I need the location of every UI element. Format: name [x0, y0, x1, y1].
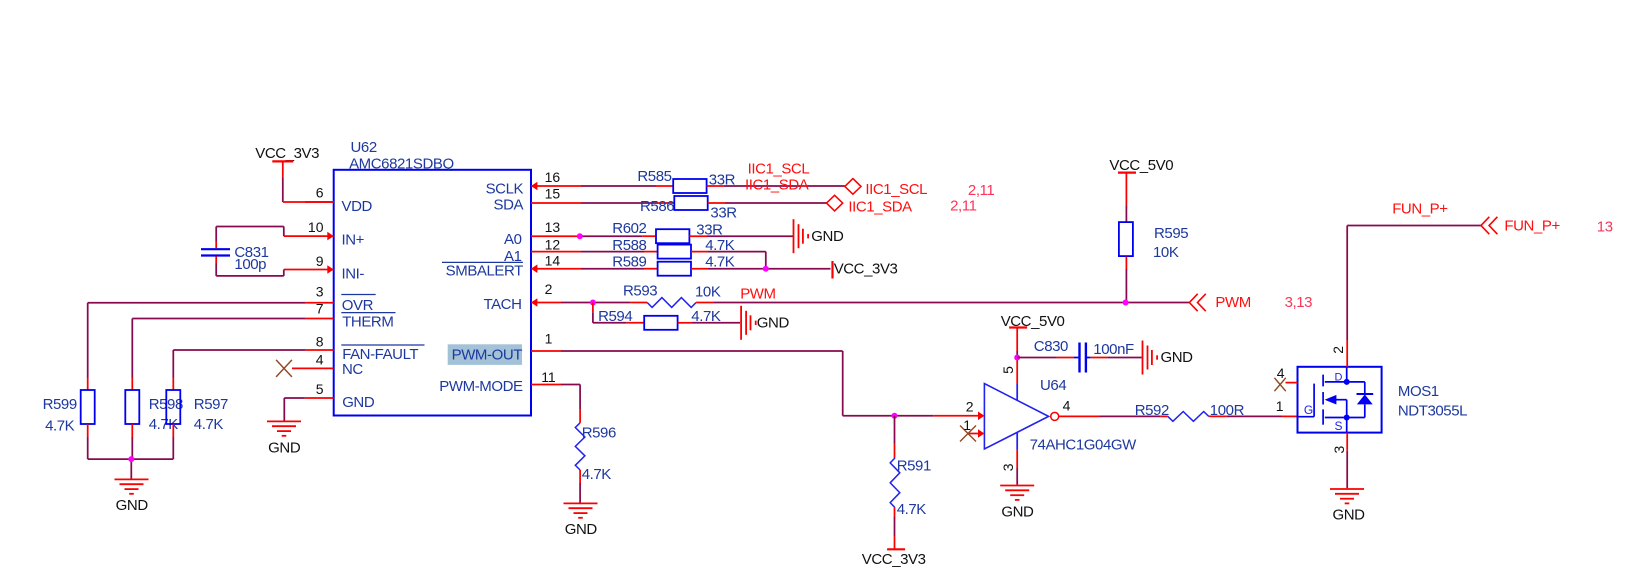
- junction node at resistor commons: [128, 456, 134, 462]
- svg-text:GND: GND: [565, 521, 598, 538]
- svg-text:1: 1: [963, 417, 971, 433]
- resistor R586 33R: [640, 196, 737, 221]
- svg-text:OVR: OVR: [342, 297, 374, 314]
- wire OVR net: [88, 303, 306, 378]
- svg-text:FUN_P+: FUN_P+: [1392, 201, 1448, 218]
- pin 2 drain of MOS1: [1330, 340, 1347, 367]
- junction node on SMBALERT net: [763, 266, 769, 272]
- wire FAN-FAULT net: [173, 350, 305, 378]
- svg-text:1: 1: [1276, 398, 1284, 414]
- wire VCC_5V0 to R595: [1125, 206, 1127, 222]
- svg-text:AMC6821SDBQ: AMC6821SDBQ: [349, 155, 454, 172]
- svg-text:GND: GND: [1161, 349, 1194, 366]
- off-page connector FUN_P+: [1481, 217, 1560, 235]
- wire IN+ net (C831 top): [216, 227, 284, 242]
- svg-text:R593: R593: [623, 283, 657, 300]
- svg-text:74AHC1G04GW: 74AHC1G04GW: [1030, 437, 1138, 454]
- wire SDA net to connector: [708, 202, 827, 204]
- svg-text:10K: 10K: [1153, 244, 1179, 261]
- resistor R594 4.7K: [598, 308, 721, 330]
- svg-text:3: 3: [316, 283, 324, 299]
- resistor R589 4.7K: [612, 254, 734, 276]
- svg-text:R599: R599: [43, 396, 77, 413]
- wire A1 net to R588: [581, 251, 658, 253]
- power symbol VCC_5V0 above R595: [1109, 157, 1173, 206]
- svg-text:R597: R597: [194, 396, 228, 413]
- svg-text:VCC_3V3: VCC_3V3: [834, 261, 898, 278]
- svg-text:R595: R595: [1154, 225, 1188, 242]
- svg-text:SMBALERT: SMBALERT: [446, 263, 523, 280]
- svg-text:4.7K: 4.7K: [194, 416, 224, 433]
- junction node on PWM net: [1123, 300, 1129, 306]
- svg-text:2,11: 2,11: [968, 182, 994, 199]
- svg-text:4: 4: [1277, 365, 1285, 381]
- svg-text:R588: R588: [612, 237, 646, 254]
- wire R591 to VCC_3V3: [894, 517, 896, 549]
- svg-text:1: 1: [545, 331, 553, 347]
- svg-text:15: 15: [545, 186, 561, 202]
- pin 3 ground pin of U64: [1000, 449, 1017, 485]
- ground symbol below R598: [115, 479, 149, 514]
- svg-text:4.7K: 4.7K: [897, 501, 927, 518]
- wire FUN_P+ net: [1347, 226, 1481, 341]
- svg-text:PWM: PWM: [740, 286, 775, 303]
- svg-text:R594: R594: [598, 308, 632, 325]
- off-page connector IIC1_SDA: [827, 195, 913, 215]
- svg-text:VCC_3V3: VCC_3V3: [862, 551, 926, 568]
- svg-text:G: G: [1304, 403, 1313, 417]
- svg-text:U62: U62: [351, 139, 377, 156]
- svg-text:12: 12: [545, 237, 561, 253]
- svg-text:2: 2: [545, 281, 553, 297]
- svg-text:10: 10: [308, 219, 324, 235]
- resistor R598 4.7K: [125, 378, 183, 438]
- svg-text:8: 8: [316, 333, 324, 349]
- svg-text:13: 13: [1597, 219, 1613, 236]
- svg-text:R591: R591: [897, 457, 931, 474]
- wire U64 output to R592: [1100, 415, 1168, 417]
- svg-text:D: D: [1335, 372, 1343, 384]
- resistor R593 10K: [623, 283, 721, 308]
- ground symbol at MOS1 source: [1330, 489, 1365, 523]
- svg-text:16: 16: [545, 169, 561, 185]
- wire R595 to PWM net: [1125, 269, 1127, 303]
- capacitor C830 100nF: [1017, 338, 1141, 372]
- wire SMBALERT net to R589: [581, 268, 658, 270]
- wire R588 to VCC rail: [691, 252, 766, 269]
- svg-text:R602: R602: [612, 220, 646, 237]
- wire THERM net: [132, 319, 305, 378]
- pin 12 A1 of U62: [504, 237, 581, 265]
- power symbol VCC_3V3 at U62 VDD: [255, 145, 319, 178]
- junction node on PWM-OUT net: [892, 413, 898, 419]
- resistor R585 33R: [637, 168, 735, 193]
- svg-text:4.7K: 4.7K: [582, 466, 612, 483]
- svg-text:MOS1: MOS1: [1398, 383, 1439, 400]
- junction node at U64 pin 5: [1014, 355, 1020, 361]
- svg-text:INI-: INI-: [342, 265, 365, 282]
- svg-text:VCC_5V0: VCC_5V0: [1109, 157, 1173, 174]
- wire VCC_5V0 to U64 pin5 and C830: [1016, 351, 1018, 384]
- wire resistor commons to ground: [88, 437, 174, 479]
- resistor R595 10K: [1119, 222, 1188, 269]
- wire A0 net to R602: [581, 235, 656, 237]
- svg-text:3: 3: [1331, 445, 1347, 453]
- highlight on pin name PWM-OUT: [448, 344, 522, 365]
- pin 5 GND of U62: [305, 381, 375, 411]
- ground symbol below R596: [564, 503, 598, 538]
- ground symbol on C830 net: [1143, 341, 1194, 375]
- svg-text:9: 9: [316, 253, 324, 269]
- svg-text:IIC1_SDA: IIC1_SDA: [745, 176, 809, 193]
- wire TACH net: [561, 302, 647, 304]
- pin 3 source of MOS1: [1331, 433, 1347, 489]
- pin 4 NC of U62 with no-connect X: [276, 351, 363, 378]
- pin 11 PWM-MODE of U62: [439, 369, 561, 395]
- svg-text:13: 13: [545, 219, 561, 235]
- wire U62 GND pin net: [284, 398, 304, 421]
- wire INI- net (C831 bottom): [216, 264, 284, 276]
- svg-text:S: S: [1335, 419, 1343, 433]
- svg-text:14: 14: [545, 253, 561, 269]
- power symbol VCC_3V3 right of R589: [833, 261, 898, 279]
- svg-text:4: 4: [1063, 398, 1071, 414]
- wire PWM net to rail: [696, 302, 1189, 304]
- svg-text:VCC_3V3: VCC_3V3: [255, 145, 319, 162]
- pin 8 FAN-FAULT of U62: [306, 333, 425, 363]
- svg-text:2: 2: [966, 399, 974, 415]
- power symbol VCC_5V0 at U64 pin 5: [1001, 313, 1065, 351]
- pin 15 SDA of U62: [494, 186, 581, 214]
- wire SMBALERT net to VCC_3V3: [691, 268, 831, 270]
- pin 13 A0 of U62: [504, 219, 581, 248]
- svg-text:5: 5: [316, 381, 324, 397]
- svg-text:VDD: VDD: [342, 198, 373, 215]
- svg-text:10K: 10K: [695, 284, 721, 301]
- IC U62 AMC6821SDBQ body: [334, 139, 531, 416]
- ground symbol on A0 net: [794, 219, 844, 253]
- pin 1 PWM-OUT of U62: [452, 331, 561, 364]
- svg-text:PWM: PWM: [1215, 294, 1250, 311]
- svg-text:2: 2: [1330, 346, 1346, 354]
- svg-text:GND: GND: [342, 394, 375, 411]
- inverter U64 74AHC1G04GW: [984, 377, 1137, 454]
- svg-text:4: 4: [316, 351, 324, 367]
- svg-text:SCLK: SCLK: [486, 181, 524, 198]
- svg-text:100p: 100p: [234, 256, 266, 273]
- pin 7 THERM of U62: [306, 300, 396, 330]
- svg-text:100nF: 100nF: [1093, 341, 1134, 358]
- wire PWM-OUT net: [561, 351, 979, 416]
- resistor R588 4.7K: [612, 237, 734, 259]
- svg-text:GND: GND: [116, 497, 149, 514]
- transistor MOS1 NDT3055L: [1298, 367, 1468, 433]
- power symbol VCC_3V3 below R591: [862, 549, 926, 568]
- svg-text:R596: R596: [582, 424, 616, 441]
- svg-text:R586: R586: [640, 198, 674, 215]
- resistor R592 100R: [1135, 402, 1245, 422]
- svg-text:6: 6: [316, 185, 324, 201]
- pin 3 OVR of U62: [306, 283, 376, 314]
- wire SDA net to R586: [581, 202, 674, 204]
- resistor R596 4.7K: [575, 410, 616, 483]
- off-page connector IIC1_SCL: [845, 179, 927, 198]
- svg-text:NC: NC: [342, 361, 363, 378]
- svg-text:R589: R589: [612, 254, 646, 271]
- svg-text:IIC1_SDA: IIC1_SDA: [848, 199, 912, 216]
- capacitor C831 100p: [201, 241, 269, 273]
- pin 4 output of U64 with inversion bubble: [1051, 398, 1100, 421]
- svg-text:33R: 33R: [710, 204, 737, 221]
- wire SCLK net to R585: [581, 185, 673, 187]
- svg-text:NDT3055L: NDT3055L: [1398, 403, 1467, 420]
- pin 9 INI- of U62: [284, 253, 365, 283]
- resistor R599 4.7K: [43, 378, 95, 438]
- wire branch to R594: [593, 303, 644, 323]
- resistor R591 4.7K: [890, 416, 931, 518]
- svg-text:U64: U64: [1040, 377, 1066, 394]
- svg-text:5: 5: [1000, 366, 1016, 374]
- svg-text:IIC1_SCL: IIC1_SCL: [748, 160, 810, 177]
- svg-text:7: 7: [316, 300, 324, 316]
- svg-text:GND: GND: [757, 314, 790, 331]
- wire R594 to ground: [678, 322, 740, 324]
- pin 16 SCLK of U62: [486, 169, 581, 197]
- svg-text:GND: GND: [268, 439, 301, 456]
- svg-text:R592: R592: [1135, 402, 1169, 419]
- wire R592 to MOS1 gate: [1209, 415, 1298, 417]
- junction node on A0 net: [577, 233, 583, 239]
- svg-text:3,13: 3,13: [1285, 294, 1313, 311]
- ground symbol at U64 pin 3: [1000, 486, 1034, 521]
- svg-text:3: 3: [1000, 463, 1016, 471]
- svg-text:R585: R585: [637, 168, 671, 185]
- wire PWM-MODE net: [561, 385, 580, 410]
- svg-text:4.7K: 4.7K: [45, 418, 75, 435]
- wire A0 net to ground: [689, 235, 793, 237]
- wire VDD net: [283, 178, 334, 202]
- svg-text:C830: C830: [1034, 338, 1068, 355]
- svg-text:11: 11: [541, 369, 556, 385]
- pin 10 IN+ of U62: [284, 219, 365, 249]
- svg-text:IIC1_SCL: IIC1_SCL: [865, 181, 927, 198]
- ground symbol on R594 net: [741, 306, 789, 340]
- ground symbol at U62 pin 5: [267, 421, 301, 456]
- pin 2 TACH of U62: [483, 281, 561, 313]
- pin 4 of MOS1 with no-connect X: [1274, 365, 1297, 391]
- pin 5 power pin of U64: [1000, 366, 1016, 374]
- wire SCLK net to connector: [707, 185, 845, 187]
- pin 6 VDD of U62: [305, 185, 372, 215]
- svg-text:IN+: IN+: [342, 232, 365, 249]
- svg-text:GND: GND: [811, 228, 844, 245]
- svg-text:A0: A0: [504, 231, 522, 248]
- svg-text:2,11: 2,11: [950, 198, 976, 215]
- wire R596 to ground: [579, 483, 581, 503]
- pin 14 SMBALERT of U62: [442, 253, 581, 280]
- svg-text:TACH: TACH: [483, 296, 521, 313]
- off-page connector PWM: [1189, 294, 1250, 311]
- pin 2 input of U64: [966, 399, 985, 421]
- svg-text:GND: GND: [1001, 504, 1034, 521]
- pin 1 input of U64 with no-connect X: [960, 417, 984, 442]
- svg-text:PWM-MODE: PWM-MODE: [439, 378, 523, 395]
- svg-text:THERM: THERM: [342, 314, 393, 331]
- resistor R602 33R: [612, 220, 723, 243]
- resistor R597 4.7K: [166, 378, 228, 438]
- svg-text:SDA: SDA: [494, 197, 524, 214]
- svg-text:GND: GND: [1332, 506, 1365, 523]
- svg-text:FUN_P+: FUN_P+: [1504, 218, 1560, 235]
- svg-text:PWM-OUT: PWM-OUT: [452, 346, 523, 363]
- junction node on TACH net: [590, 300, 596, 306]
